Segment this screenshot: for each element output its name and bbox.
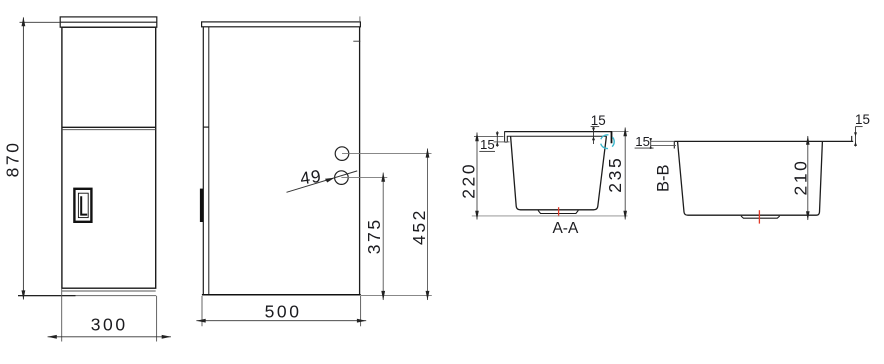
svg-text:15: 15 xyxy=(855,112,870,127)
side view: handle side profile xyxy=(200,189,203,222)
section B-B: rim left end stub xyxy=(673,141,675,148)
side view: door front edge xyxy=(202,27,204,295)
section A-A: bottom baseline extension xyxy=(472,215,628,217)
dimension 870: dimension line with arrows xyxy=(22,18,24,300)
dimension 452: dimension line with arrows xyxy=(427,149,429,301)
side view: hinge tick top right xyxy=(353,40,360,42)
svg-text:49: 49 xyxy=(299,166,323,189)
dimension 15 left of B-B: arrow line xyxy=(650,138,652,149)
dimension 15 left of A-A: lower tick xyxy=(494,141,510,143)
front view: door division lines xyxy=(62,126,156,128)
dimension 235: dimension line with arrows xyxy=(624,128,626,220)
section A-A: bottom drain boss xyxy=(538,210,578,213)
dimension 210: dimension line with arrows xyxy=(807,136,809,220)
hole circle upper xyxy=(335,147,349,161)
svg-text:B-B: B-B xyxy=(654,165,672,193)
section A-A: basin walls and bottom xyxy=(511,136,607,210)
side view: bottom extension line to dims xyxy=(361,295,432,297)
side view: top cap xyxy=(202,22,361,27)
section A-A: rim left end step xyxy=(505,132,508,143)
dimension 15 right of B-B: leader jog xyxy=(856,126,863,128)
dimension 220: dimension line with arrows xyxy=(476,133,478,220)
leader line for hole diameter 49 xyxy=(287,171,358,192)
dimension 15 top right of A-A: arrow line xyxy=(593,127,595,144)
front view: top cap xyxy=(60,17,157,27)
svg-text:452: 452 xyxy=(409,208,429,245)
dimension 870: extension lines xyxy=(20,21,61,23)
svg-text:15: 15 xyxy=(480,137,495,152)
dimension 15 left of B-B: ticks xyxy=(651,140,674,142)
section B-B: rim right end stub xyxy=(851,136,853,142)
front view: cabinet body xyxy=(62,27,156,288)
svg-text:500: 500 xyxy=(265,302,302,322)
section A-A: rim bottom line xyxy=(507,135,607,137)
detail highlight circle cyan xyxy=(600,135,614,149)
svg-text:300: 300 xyxy=(91,314,128,334)
side view: bottom line xyxy=(202,294,361,296)
dimension 375: extension line from lower hole xyxy=(341,177,387,179)
section A-A: rim right end lip xyxy=(611,132,613,144)
dimension 15 left of A-A: arrow line xyxy=(496,131,498,147)
dimension 300: dimension line with outward arrows xyxy=(48,336,171,338)
svg-text:235: 235 xyxy=(605,156,625,193)
svg-text:375: 375 xyxy=(364,217,384,254)
svg-text:A-A: A-A xyxy=(552,220,579,237)
section B-B: basin walls and bottom xyxy=(678,141,823,215)
side view: body front line xyxy=(208,27,210,295)
section B-B: red centerline tick xyxy=(758,210,760,223)
svg-text:210: 210 xyxy=(791,159,811,196)
dimension 500: dimension line with outward arrows xyxy=(196,320,366,322)
dimension 15 right of B-B: arrow line xyxy=(855,127,857,147)
section A-A: rim top line xyxy=(504,131,612,133)
section B-B: bottom drain boss xyxy=(741,216,780,218)
section B-B: rim top line xyxy=(674,140,853,142)
dimension 300: extension lines xyxy=(61,289,63,342)
section A-A: rim top extension to 235 xyxy=(612,131,628,133)
front view: door handle xyxy=(74,189,91,222)
svg-text:15: 15 xyxy=(591,113,606,128)
dimension 375: dimension line with arrows xyxy=(382,173,384,300)
svg-text:220: 220 xyxy=(459,162,479,199)
section A-A: red centerline tick xyxy=(558,207,560,216)
side view: right edge xyxy=(359,27,361,295)
dimension 452: extension line from upper hole xyxy=(342,153,432,155)
dimension 500: extension lines xyxy=(201,296,203,326)
dimension 220: top extension line xyxy=(474,135,504,137)
svg-text:15: 15 xyxy=(635,134,650,149)
hole circle lower xyxy=(335,171,349,185)
svg-text:870: 870 xyxy=(3,140,23,177)
front view: bottom panel line xyxy=(62,290,156,292)
side view: small extension above top right xyxy=(359,16,361,22)
side view: door split tick xyxy=(203,126,209,128)
